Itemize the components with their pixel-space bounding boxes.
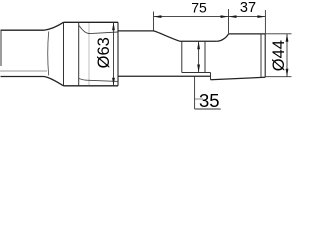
middle cylinder top edge xyxy=(118,30,154,32)
dim 75 left extension line xyxy=(153,12,155,31)
dim D44 bottom arrow xyxy=(286,69,289,77)
shank top edge xyxy=(1,29,45,31)
dim 35 top arrow xyxy=(197,41,200,49)
collar left tangent line xyxy=(63,22,65,86)
collar inner vertical line xyxy=(78,22,80,86)
dim 37 right extension line xyxy=(264,10,266,34)
dim D63 top arrow xyxy=(112,22,115,30)
dim 75 right arrow xyxy=(221,15,229,18)
dim 37 right arrow xyxy=(257,15,265,18)
dim 37 left arrow xyxy=(229,15,237,18)
dim 35 leader vertical xyxy=(194,76,196,109)
neck flat top edge xyxy=(180,40,217,42)
flare top edge xyxy=(44,22,64,30)
right end chamfer line xyxy=(260,34,262,77)
flare bottom edge xyxy=(44,77,64,86)
shank faint inner line xyxy=(0,70,47,72)
dim D63 bottom arrow xyxy=(112,78,115,86)
middle cylinder bottom edge xyxy=(118,75,211,77)
dim 35 text shelf xyxy=(195,108,221,110)
groove right wall xyxy=(204,41,206,72)
dim D63 line xyxy=(113,22,115,86)
dim 75 left arrow xyxy=(154,15,162,18)
groove left wall xyxy=(181,41,183,72)
svg-text:75: 75 xyxy=(191,0,207,15)
shank left end face xyxy=(0,30,2,66)
dim D44 top arrow xyxy=(286,34,289,42)
dim D44 top extension line xyxy=(265,33,291,35)
collar inner bottom fillet line xyxy=(79,79,118,82)
dim 37 line xyxy=(229,16,266,18)
collar faint vertical line xyxy=(88,23,90,85)
dim D44 bottom extension line xyxy=(265,76,291,78)
collar right face xyxy=(117,22,119,86)
svg-text:35: 35 xyxy=(199,90,220,111)
svg-text:Ø63: Ø63 xyxy=(95,37,113,68)
svg-text:Ø44: Ø44 xyxy=(270,40,288,71)
dim 35 bottom arrow xyxy=(197,65,200,73)
dim 75 line xyxy=(154,16,229,18)
collar bottom edge xyxy=(64,85,119,87)
right end face xyxy=(264,34,266,77)
svg-text:37: 37 xyxy=(240,0,256,16)
shank bottom edge xyxy=(1,76,45,78)
right cylinder bottom edge xyxy=(211,77,266,79)
right cylinder top edge xyxy=(229,33,266,35)
flare tangent curve xyxy=(47,32,50,76)
collar inner top fillet line xyxy=(79,26,118,34)
groove step vertical xyxy=(210,73,212,80)
dim D44 line xyxy=(286,34,288,77)
neck right fillet xyxy=(217,34,229,41)
dim 35 line xyxy=(198,41,200,72)
dim 75/37 shared extension line xyxy=(228,9,230,34)
dim 35 leader foot xyxy=(195,98,203,100)
collar top edge xyxy=(64,21,119,23)
groove floor line xyxy=(182,72,211,74)
neck concave transition top xyxy=(154,31,181,41)
